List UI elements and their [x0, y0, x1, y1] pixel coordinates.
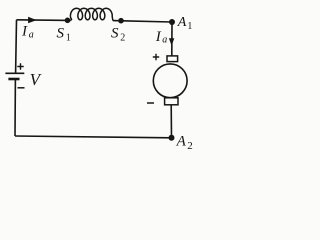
inductor coil L — [70, 8, 112, 20]
svg-text:A: A — [177, 15, 187, 30]
wire bottom horizontal — [15, 136, 172, 138]
wire right vertical top (A1 to motor) — [171, 22, 173, 56]
battery plate negative (short thick) — [8, 78, 19, 81]
wire right vertical bottom (motor to A2) — [170, 105, 172, 138]
motor brush terminal bottom — [165, 98, 178, 105]
svg-text:2: 2 — [187, 140, 193, 152]
wire top-right segment (coil end through S2 to A1) — [113, 21, 172, 22]
svg-text:I: I — [155, 29, 162, 45]
wire left vertical — [15, 20, 18, 73]
svg-text:S: S — [111, 26, 119, 42]
svg-text:1: 1 — [66, 32, 71, 43]
svg-text:a: a — [162, 34, 167, 45]
svg-text:2: 2 — [120, 32, 125, 43]
node A1 dot — [169, 19, 175, 25]
svg-text:a: a — [29, 29, 34, 40]
wire below battery — [14, 79, 16, 136]
svg-text:1: 1 — [187, 21, 192, 32]
node S1 dot — [65, 18, 71, 24]
node S2 dot — [118, 18, 124, 24]
motor brush terminal top — [167, 56, 178, 62]
svg-text:S: S — [57, 26, 65, 42]
battery minus sign — [18, 87, 25, 89]
node A2 dot — [169, 135, 175, 141]
battery plus sign — [17, 63, 23, 69]
svg-text:V: V — [30, 70, 43, 89]
wire top-left segment (corner to S1/coil) — [17, 19, 71, 22]
svg-text:A: A — [176, 133, 187, 149]
arrow current Ia down on right wire — [169, 38, 174, 46]
svg-text:I: I — [21, 24, 28, 40]
arrow current Ia right on top wire — [28, 17, 36, 24]
motor minus sign — [147, 102, 154, 104]
motor plus sign — [153, 54, 159, 60]
battery plate positive (long) — [5, 72, 24, 74]
motor armature circle M — [153, 64, 187, 98]
